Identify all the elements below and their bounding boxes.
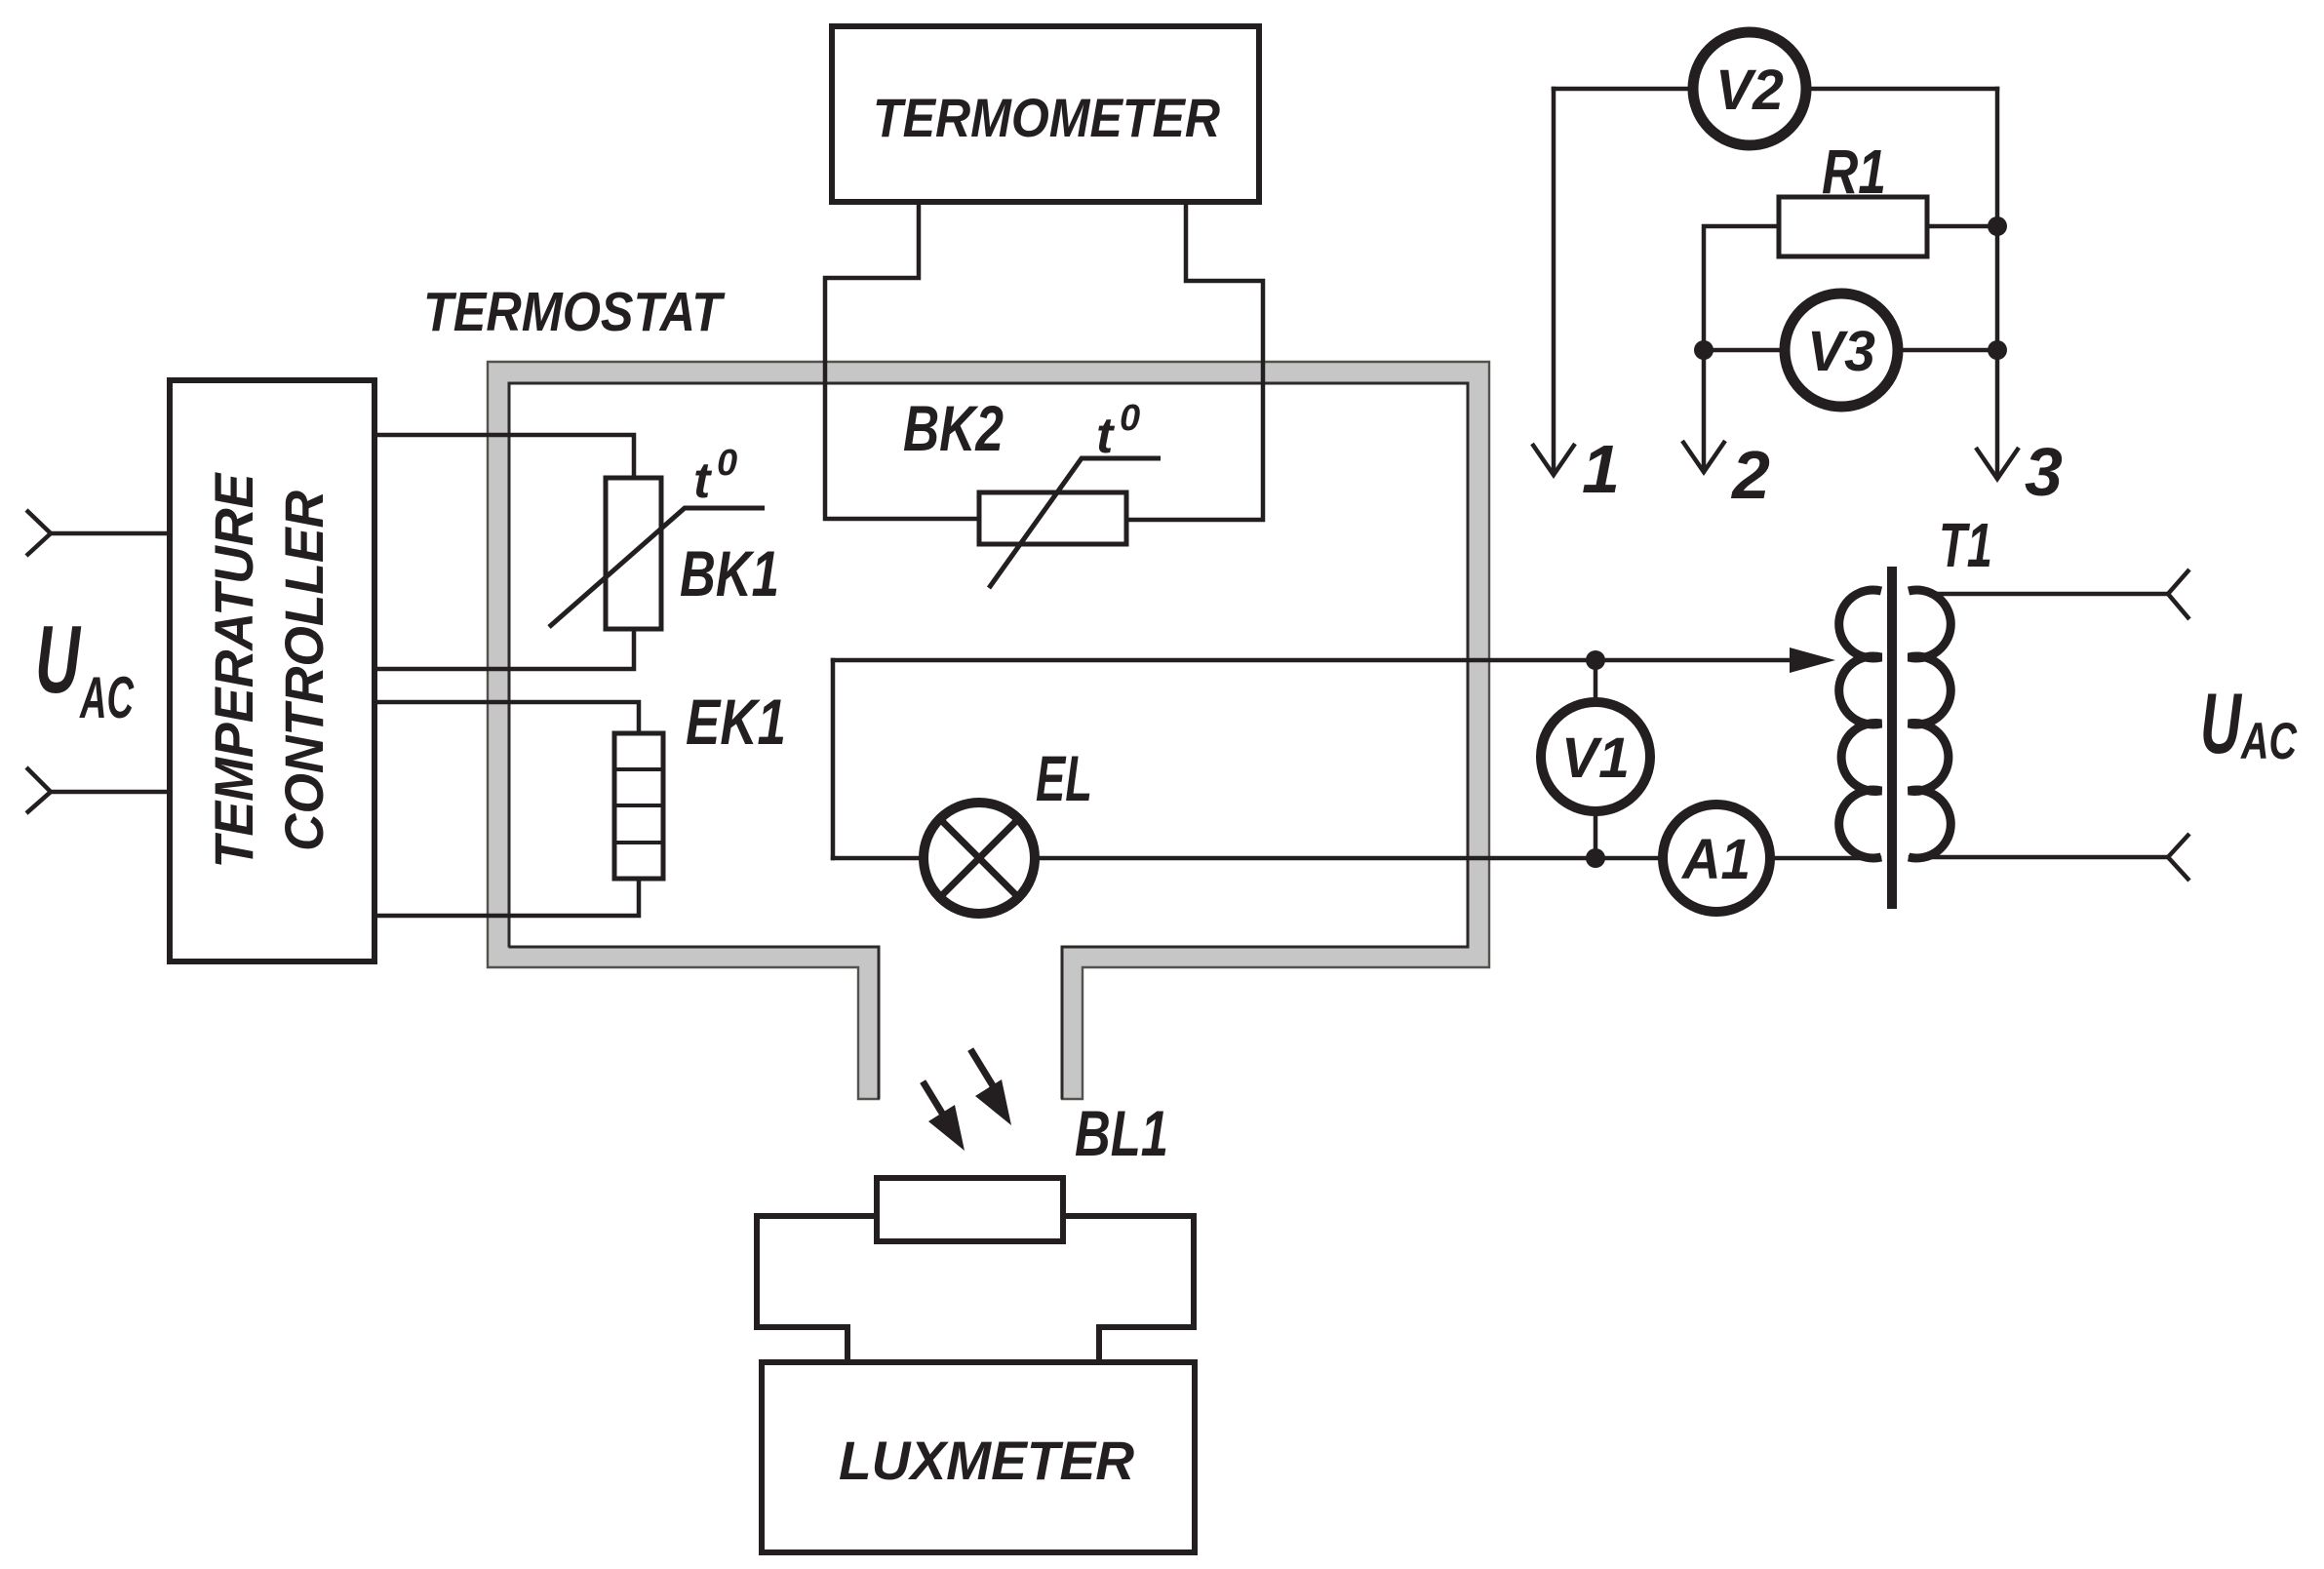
svg-text:AC: AC	[79, 665, 135, 730]
svg-text:0: 0	[1120, 398, 1140, 439]
node: V3 right junction	[1988, 340, 2007, 360]
label U_AC (left)	[35, 606, 135, 730]
thermistor BK2	[979, 458, 1161, 588]
ammeter A1	[1663, 804, 1770, 912]
light ray arrow right	[972, 1052, 1011, 1125]
wire: EK1 bottom to controller	[374, 879, 639, 916]
luxmeter sensor head	[757, 1178, 1194, 1362]
wire: input bottom to controller	[51, 790, 170, 795]
wire: termometer left lead to BK2	[825, 202, 979, 519]
wire: input top to controller	[51, 531, 170, 536]
voltmeter V1	[1541, 702, 1650, 811]
svg-text:V1: V1	[1561, 726, 1630, 790]
thermostat wall (gray chamber)	[488, 362, 1489, 1099]
voltmeter V2	[1693, 32, 1806, 145]
wire: V3 right	[1898, 348, 1997, 353]
wire: V2 left	[1554, 87, 1695, 92]
svg-text:TERMOMETER: TERMOMETER	[873, 87, 1220, 148]
label t0 (BK2)	[1096, 398, 1140, 464]
wire: node1 vertical	[1552, 89, 1556, 472]
wire: EL loop top (to transformer with arrow)	[833, 658, 1799, 663]
svg-text:U: U	[35, 606, 81, 713]
node: V1 bottom junction	[1586, 848, 1605, 868]
voltmeter V3	[1785, 294, 1898, 407]
svg-text:U: U	[2200, 675, 2243, 771]
node: V3 left junction	[1694, 340, 1713, 360]
TEMPERATURE CONTROLLER box	[170, 380, 374, 961]
node: V1 top junction	[1586, 650, 1605, 670]
T1 secondary winding	[1909, 590, 1950, 858]
svg-text:BK1: BK1	[680, 537, 779, 609]
svg-text:R1: R1	[1822, 137, 1886, 207]
wire: lamp to A1	[1035, 856, 1664, 861]
svg-text:2: 2	[1730, 437, 1770, 513]
svg-text:3: 3	[2025, 434, 2063, 510]
svg-text:TEMPERATURE: TEMPERATURE	[203, 472, 264, 869]
svg-text:CONTROLLER: CONTROLLER	[273, 490, 335, 851]
LUXMETER box	[762, 1362, 1195, 1552]
svg-text:EK1: EK1	[686, 686, 786, 758]
wire: node3 vertical	[1995, 89, 2000, 476]
heater EK1	[614, 733, 663, 879]
node: R1 right junction	[1988, 216, 2007, 236]
output terminal bottom	[2168, 834, 2189, 881]
wire: BK1 bottom to controller	[374, 629, 634, 669]
arrow head node 2	[1682, 441, 1725, 472]
svg-text:LUXMETER: LUXMETER	[839, 1430, 1135, 1491]
light ray arrow left	[925, 1084, 965, 1151]
wire: EL loop bottom left	[833, 856, 923, 861]
input terminal bottom	[26, 767, 51, 813]
output terminal top	[2168, 569, 2189, 619]
wire: secondary top output	[1929, 592, 2168, 597]
wire: V2 right	[1804, 87, 1997, 92]
svg-text:AC: AC	[2240, 713, 2298, 770]
wire: controller to BK1 top	[374, 435, 634, 478]
wire: EL loop left side	[831, 660, 836, 858]
transformer T1	[1839, 510, 1992, 909]
resistor R1	[1779, 197, 1927, 256]
svg-text:EL: EL	[1036, 742, 1092, 814]
T1 primary winding	[1839, 590, 1881, 858]
arrow head node 1	[1532, 444, 1575, 475]
svg-text:V3: V3	[1807, 320, 1875, 383]
TERMOMETER box	[832, 26, 1259, 202]
input terminal top	[26, 510, 51, 556]
wire: V1 top stub	[1594, 660, 1598, 704]
wire: secondary bottom output	[1910, 855, 2168, 860]
svg-text:TERMOSTAT: TERMOSTAT	[423, 281, 726, 343]
wire: V1 bottom stub	[1594, 809, 1598, 858]
arrow head node 3	[1976, 448, 2019, 479]
wire: R1 left	[1704, 226, 1779, 469]
wire: controller to EK1 top	[374, 702, 639, 733]
svg-text:t: t	[693, 452, 713, 509]
wire: R1 right	[1927, 224, 1997, 229]
svg-text:1: 1	[1582, 431, 1620, 507]
wire: A1 to T1 primary	[1769, 856, 1879, 861]
svg-text:0: 0	[717, 443, 737, 484]
svg-text:BK2: BK2	[903, 392, 1004, 464]
thermistor BK1	[549, 478, 765, 629]
wire: termometer right lead to BK2	[1126, 202, 1263, 520]
svg-text:BL1: BL1	[1075, 1097, 1168, 1169]
label t0 (BK1)	[693, 443, 737, 509]
label U_AC (right)	[2200, 675, 2298, 771]
svg-text:T1: T1	[1939, 510, 1992, 580]
svg-text:t: t	[1096, 408, 1116, 464]
svg-text:V2: V2	[1715, 59, 1784, 122]
svg-text:A1: A1	[1680, 828, 1751, 891]
T1 core	[1887, 567, 1897, 909]
lamp EL	[924, 803, 1035, 914]
wire: V3 left	[1704, 348, 1785, 353]
arrowhead into T1 primary	[1790, 647, 1835, 673]
